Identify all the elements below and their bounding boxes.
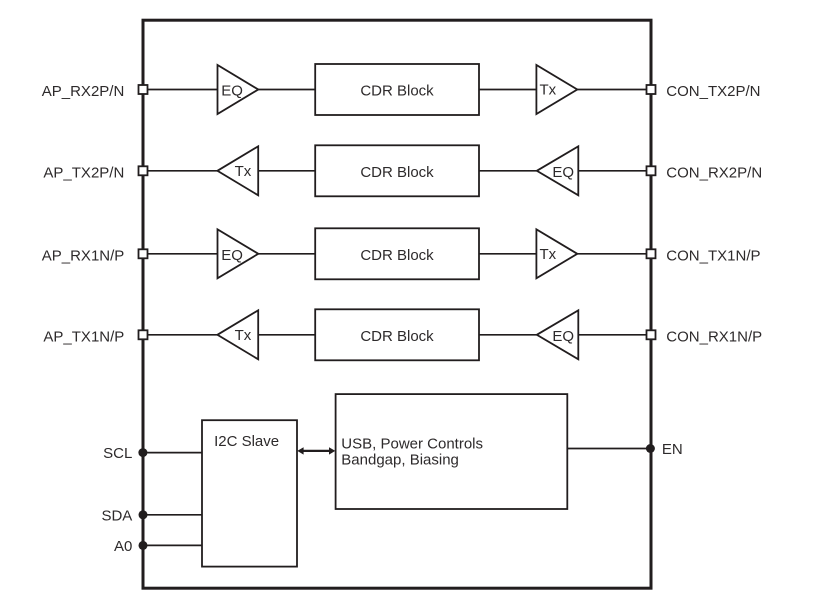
node EN — [646, 444, 655, 453]
wire EN — [567, 448, 651, 450]
wire SCL — [143, 452, 202, 454]
pin AP_TX1N/P — [139, 330, 148, 339]
driver Tx row2 left — [217, 146, 258, 195]
svg-text:EQ: EQ — [221, 83, 243, 100]
buffer EQ row4 right — [537, 310, 579, 359]
pin AP_RX2P/N — [139, 85, 148, 94]
pin CON_RX1N/P — [647, 330, 656, 339]
bidirectional bus I2C Slave to USB block — [297, 447, 335, 454]
wire row3 AP_RX1N/P to CON_TX1N/P — [143, 253, 651, 255]
svg-text:AP_TX2P/N: AP_TX2P/N — [43, 164, 124, 181]
svg-text:SDA: SDA — [101, 507, 132, 524]
node SDA — [139, 510, 148, 519]
buffer EQ row3 left — [218, 229, 259, 278]
svg-text:EQ: EQ — [552, 164, 574, 181]
svg-text:SCL: SCL — [103, 445, 132, 462]
chip outer boundary — [143, 20, 651, 588]
buffer EQ row2 right — [537, 146, 579, 195]
svg-text:CDR Block: CDR Block — [360, 164, 434, 181]
CDR Block row1 — [315, 64, 479, 115]
svg-text:AP_RX1N/P: AP_RX1N/P — [42, 247, 125, 264]
wire row2 AP_TX2P/N to CON_RX2P/N — [143, 170, 651, 172]
svg-text:EQ: EQ — [221, 247, 243, 264]
CDR Block row2 — [315, 145, 479, 196]
svg-text:I2C Slave: I2C Slave — [214, 433, 279, 450]
pin CON_TX1N/P — [647, 249, 656, 258]
wire A0 — [143, 544, 202, 546]
buffer EQ row1 left — [218, 65, 259, 114]
svg-text:CDR Block: CDR Block — [360, 328, 434, 345]
svg-text:CON_RX2P/N: CON_RX2P/N — [666, 164, 762, 181]
svg-text:Tx: Tx — [540, 246, 557, 263]
CDR Block row4 — [315, 309, 479, 360]
pin AP_TX2P/N — [139, 166, 148, 175]
svg-text:Bandgap, Biasing: Bandgap, Biasing — [341, 452, 459, 469]
I2C Slave block — [202, 420, 297, 566]
driver Tx row1 right — [536, 65, 577, 114]
pin CON_TX2P/N — [647, 85, 656, 94]
USB power controls block — [336, 394, 568, 509]
svg-text:USB, Power Controls: USB, Power Controls — [341, 435, 483, 452]
svg-text:EN: EN — [662, 441, 683, 458]
driver Tx row4 left — [217, 310, 258, 359]
svg-text:CDR Block: CDR Block — [360, 83, 434, 100]
svg-text:CON_RX1N/P: CON_RX1N/P — [666, 328, 762, 345]
node A0 — [139, 541, 148, 550]
pin AP_RX1N/P — [139, 249, 148, 258]
wire row4 AP_TX1N/P to CON_RX1N/P — [143, 334, 651, 336]
svg-text:CON_TX2P/N: CON_TX2P/N — [666, 83, 760, 100]
svg-text:Tx: Tx — [235, 327, 252, 344]
svg-text:AP_TX1N/P: AP_TX1N/P — [43, 328, 124, 345]
wire SDA — [143, 514, 202, 516]
pin CON_RX2P/N — [647, 166, 656, 175]
svg-text:Tx: Tx — [235, 163, 252, 180]
svg-text:EQ: EQ — [552, 328, 574, 345]
wire row1 AP_RX2P/N to CON_TX2P/N — [143, 89, 651, 91]
svg-text:Tx: Tx — [540, 82, 557, 99]
CDR Block row3 — [315, 228, 479, 279]
node SCL — [138, 448, 147, 457]
svg-text:CON_TX1N/P: CON_TX1N/P — [666, 247, 760, 264]
svg-text:A0: A0 — [114, 538, 132, 555]
driver Tx row3 right — [536, 229, 577, 278]
svg-text:AP_RX2P/N: AP_RX2P/N — [42, 83, 125, 100]
svg-text:CDR Block: CDR Block — [360, 247, 434, 264]
